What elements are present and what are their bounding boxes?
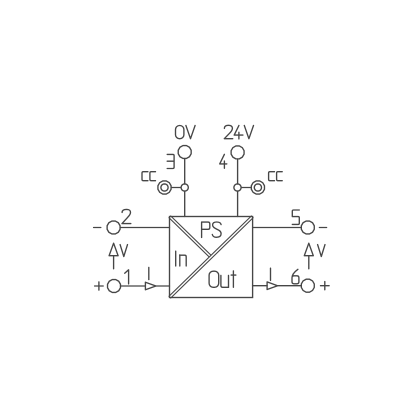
label In — [176, 251, 187, 266]
terminal 1 — [108, 280, 121, 293]
label PS — [202, 222, 222, 238]
polarity minus (input) — [94, 227, 101, 229]
net label 0V — [176, 126, 196, 139]
voltage arrow V (output) — [304, 243, 313, 269]
wire cc-left to junction — [171, 187, 184, 189]
label I (output) — [270, 268, 272, 280]
pin number 6 — [292, 269, 299, 284]
wire terminal2 to box — [120, 227, 169, 229]
isolation barrier diagonal (TL-center) — [169, 216, 211, 257]
cc screen terminal right — [251, 181, 264, 194]
wire cc-right to junction — [238, 187, 252, 189]
junction node right — [234, 184, 241, 191]
label Out — [209, 271, 236, 287]
pin number 1 — [125, 270, 129, 284]
wire terminal1 to arrow — [121, 285, 146, 287]
pin number 2 — [122, 209, 131, 223]
isolation barrier diagonal (TR-BL) — [169, 216, 254, 299]
terminal 4 (24V) — [231, 146, 244, 159]
label I (input) — [148, 267, 150, 279]
current arrow I (input) — [145, 282, 156, 290]
pin number 3 — [167, 154, 174, 168]
isolator box U1 — [170, 217, 253, 298]
polarity plus (input) — [95, 282, 104, 290]
wire box to arrow (output) — [253, 285, 268, 287]
terminal 6 — [301, 279, 314, 292]
net label 24V — [224, 125, 253, 139]
pin number 4 — [220, 154, 227, 168]
wire terminal4 to box — [237, 159, 239, 216]
voltage arrow V (input) — [109, 243, 118, 269]
label cc right — [269, 172, 283, 181]
label V (input) — [120, 245, 127, 257]
wire box to terminal5 — [253, 227, 302, 229]
polarity minus (output) — [319, 227, 326, 229]
junction node left — [181, 184, 188, 191]
cc screen terminal left — [158, 181, 171, 194]
wire arrow to terminal6 — [278, 285, 302, 287]
wire arrow to box (input) — [156, 285, 170, 287]
pin number 5 — [292, 210, 299, 224]
wire terminal3 to box — [184, 159, 186, 217]
label cc left — [142, 172, 156, 181]
terminal 3 (0V) — [178, 146, 191, 159]
current arrow I (output) — [267, 282, 278, 290]
terminal 2 — [107, 221, 120, 234]
label V (output) — [318, 245, 325, 257]
polarity plus (output) — [321, 282, 330, 290]
terminal 5 — [301, 221, 314, 234]
